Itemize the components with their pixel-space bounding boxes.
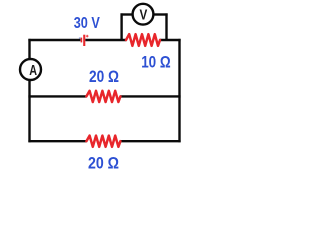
- svg-text:20 Ω: 20 Ω: [88, 154, 119, 172]
- battery V1 minus mark: [79, 37, 81, 39]
- wire: voltmeter loop top left horizontal: [121, 13, 135, 15]
- resistor R1 10 ohm: [126, 34, 160, 46]
- battery V1 negative plate (short): [81, 38, 83, 43]
- wire: middle branch right segment: [120, 95, 181, 97]
- wire: top rail right segment (R1 to right rail): [160, 39, 181, 41]
- resistor R3 20 ohm (bottom branch): [86, 136, 120, 147]
- wire: voltmeter tap left vertical: [120, 13, 122, 40]
- wire: left vertical rail: [28, 39, 30, 142]
- svg-text:20 Ω: 20 Ω: [89, 67, 119, 86]
- wire: right vertical rail: [178, 39, 180, 142]
- wire: bottom branch right segment: [120, 140, 181, 142]
- voltmeter V body: [133, 4, 154, 25]
- svg-text:30 V: 30 V: [74, 15, 101, 32]
- ammeter A1 body: [20, 59, 41, 80]
- svg-text:V: V: [140, 7, 148, 24]
- wire: top rail middle segment (battery to R1): [85, 39, 126, 41]
- wire: voltmeter loop top right horizontal: [152, 13, 168, 15]
- svg-text:10 Ω: 10 Ω: [141, 52, 171, 71]
- battery V1 plus mark: [86, 35, 89, 38]
- wire: top rail left segment (to battery): [28, 39, 80, 41]
- wire: bottom branch left segment: [28, 140, 86, 142]
- wire: middle branch left segment: [28, 95, 86, 97]
- wire: voltmeter tap right vertical: [165, 13, 167, 40]
- resistor R2 20 ohm (middle branch): [86, 91, 120, 102]
- battery V1 positive plate (long): [83, 35, 85, 46]
- svg-text:A: A: [29, 63, 37, 79]
